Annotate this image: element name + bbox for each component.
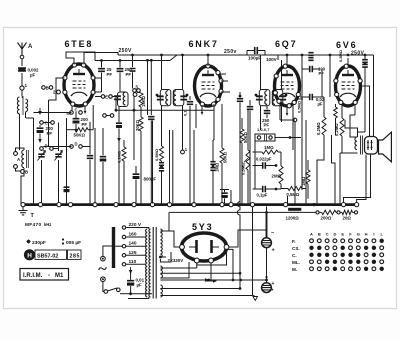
capacitor 250PF bbox=[264, 111, 270, 114]
wire bbox=[230, 190, 232, 203]
mains plug contact bbox=[101, 256, 106, 261]
wire bbox=[287, 196, 289, 204]
svg-text:0,5MΩ: 0,5MΩ bbox=[287, 192, 300, 197]
svg-text:+: + bbox=[272, 281, 275, 287]
svg-text:Η: Η bbox=[27, 252, 32, 259]
bus junction bbox=[167, 203, 171, 207]
bus junction bbox=[114, 203, 118, 207]
capacitor pair top bbox=[308, 53, 313, 56]
logo box SB57-02 bbox=[35, 250, 67, 259]
capacitor bbox=[189, 96, 191, 100]
capacitor 800uF bbox=[133, 174, 140, 177]
svg-text:B: B bbox=[46, 86, 49, 91]
svg-text:−: − bbox=[271, 231, 274, 237]
wire bbox=[21, 73, 23, 86]
bus junction bbox=[341, 203, 345, 207]
svg-text:100V: 100V bbox=[266, 57, 278, 62]
switch contact bbox=[14, 165, 18, 169]
svg-text:20Ω: 20Ω bbox=[343, 215, 352, 220]
wire bbox=[26, 117, 34, 119]
svg-text:µF: µF bbox=[318, 102, 323, 107]
wire bbox=[160, 288, 240, 290]
capacitor black bbox=[220, 189, 229, 191]
avc arrow bbox=[118, 135, 120, 140]
mains plug contact bbox=[101, 277, 106, 282]
wire bbox=[357, 155, 366, 203]
wire bbox=[254, 141, 256, 189]
center tap bbox=[159, 256, 162, 259]
junction bbox=[100, 59, 103, 62]
svg-text:-: - bbox=[48, 273, 50, 279]
antenna A bbox=[18, 43, 27, 58]
wire bbox=[169, 130, 171, 204]
svg-text:PF: PF bbox=[319, 71, 325, 76]
power transformer primary bbox=[146, 229, 148, 297]
wire bbox=[362, 86, 369, 137]
svg-text:PF: PF bbox=[107, 72, 113, 77]
svg-text:50KΩ: 50KΩ bbox=[222, 151, 227, 163]
svg-text:E: E bbox=[105, 95, 108, 100]
capacitor 0.002uF bbox=[18, 68, 26, 71]
svg-text:1MΩ: 1MΩ bbox=[264, 145, 274, 150]
wire bbox=[67, 106, 73, 114]
wire bbox=[252, 207, 254, 296]
svg-text:PF: PF bbox=[126, 72, 132, 77]
tap 220 V bbox=[122, 226, 125, 229]
resistor 20 Ohm bbox=[342, 210, 353, 214]
wire bbox=[227, 249, 234, 280]
logo box 285 bbox=[68, 250, 82, 259]
resistor bbox=[122, 147, 126, 161]
chassis arrow bbox=[252, 295, 255, 297]
wire bbox=[152, 121, 154, 204]
svg-text:C.: C. bbox=[292, 253, 297, 258]
wire bbox=[146, 228, 149, 230]
avc arrow bbox=[39, 108, 41, 113]
svg-text:0,1MΩ: 0,1MΩ bbox=[117, 150, 122, 163]
svg-text:220 V: 220 V bbox=[129, 222, 142, 228]
IF transformer T2 secondary bbox=[272, 90, 283, 106]
svg-text:I: I bbox=[373, 232, 374, 237]
wire bbox=[182, 106, 184, 128]
oscillator coil unit bbox=[118, 92, 129, 107]
pin lead bbox=[296, 98, 303, 100]
tuning gang capacitor C1 bbox=[38, 154, 44, 157]
wire bbox=[286, 55, 288, 66]
junction bbox=[131, 54, 134, 57]
wire bbox=[358, 132, 366, 137]
volume potentiometer 0.5MOhm bbox=[246, 150, 250, 170]
svg-text:0,5MΩ: 0,5MΩ bbox=[297, 100, 302, 113]
wire bbox=[49, 78, 65, 100]
wire bbox=[160, 262, 189, 278]
capacitor 0.1uF bbox=[263, 186, 266, 192]
svg-text:D: D bbox=[75, 142, 78, 147]
tuning gang capacitor C2 bbox=[55, 154, 61, 157]
wire bbox=[48, 100, 50, 146]
resistor 0.2MOhm b bbox=[340, 118, 344, 136]
wire bbox=[160, 231, 179, 247]
node 1 bbox=[20, 86, 24, 90]
svg-text:0,2MΩ: 0,2MΩ bbox=[316, 122, 321, 135]
svg-text:005 µF: 005 µF bbox=[66, 240, 81, 246]
wire bbox=[301, 55, 303, 69]
svg-text:A: A bbox=[28, 44, 33, 50]
svg-text:0,5MΩ: 0,5MΩ bbox=[241, 162, 246, 175]
svg-text:B: B bbox=[318, 232, 321, 237]
power switch bbox=[104, 290, 108, 294]
capacitor bbox=[100, 157, 106, 160]
pin stub bbox=[201, 105, 203, 112]
wire bbox=[277, 55, 279, 60]
svg-text:0,5MΩ: 0,5MΩ bbox=[338, 49, 343, 62]
ground symbol bbox=[19, 211, 28, 215]
svg-text:1200Ω: 1200Ω bbox=[286, 215, 300, 220]
resistor 0.5MOhm bbox=[288, 187, 302, 191]
capacitor 100pF bbox=[310, 66, 313, 72]
wire bbox=[279, 104, 281, 120]
logo badge bbox=[24, 249, 35, 260]
svg-text:160: 160 bbox=[129, 232, 137, 238]
svg-text:2: 2 bbox=[53, 90, 56, 95]
svg-text:0,1µF: 0,1µF bbox=[257, 193, 268, 198]
capacitor 25pF bbox=[101, 61, 103, 68]
capacitor 0.022uF bbox=[263, 162, 266, 168]
power transformer core bbox=[152, 227, 154, 299]
arrow on wire bbox=[205, 278, 210, 282]
tap 160 bbox=[122, 235, 125, 238]
wire bbox=[213, 104, 215, 140]
pin stub bbox=[84, 106, 86, 111]
wire bbox=[150, 60, 152, 115]
svg-text:6Q7: 6Q7 bbox=[275, 39, 297, 49]
capacitor 250pF bbox=[119, 61, 121, 68]
model box I.R.I.M. - M1 bbox=[20, 269, 69, 281]
junction bbox=[255, 94, 258, 97]
bus junction bbox=[21, 203, 25, 207]
wire bbox=[344, 155, 371, 203]
wire bbox=[21, 171, 24, 204]
svg-text:SB57-02: SB57-02 bbox=[37, 254, 58, 260]
wire bbox=[66, 118, 68, 204]
svg-text:PF: PF bbox=[82, 122, 88, 127]
wire bbox=[196, 263, 198, 268]
wire bbox=[350, 115, 358, 137]
wire bbox=[133, 96, 135, 160]
svg-text:110: 110 bbox=[129, 259, 137, 265]
wire bbox=[41, 149, 43, 152]
svg-text:G: G bbox=[357, 232, 360, 237]
node B link bbox=[42, 86, 46, 90]
svg-text:1: 1 bbox=[25, 83, 28, 88]
wire bbox=[260, 106, 262, 130]
ground arrow bbox=[39, 136, 41, 141]
ground bus bbox=[23, 203, 358, 206]
resistor 20kOhm bbox=[140, 107, 142, 117]
wire bbox=[128, 297, 149, 299]
svg-text:800µF: 800µF bbox=[144, 177, 157, 182]
switch contact bbox=[14, 152, 18, 156]
resistor 0.5MOhm bbox=[160, 146, 164, 161]
bus junction bbox=[150, 203, 154, 207]
bus junction bbox=[229, 203, 233, 207]
svg-text:0,2MΩ: 0,2MΩ bbox=[334, 123, 339, 136]
wire bbox=[172, 130, 174, 203]
IF transformer T2 primary bbox=[259, 90, 270, 106]
wire bbox=[25, 112, 27, 118]
resistor bbox=[306, 170, 310, 184]
capacitor black bbox=[118, 107, 120, 123]
tap 140 bbox=[122, 245, 125, 248]
loudspeaker LS bbox=[379, 132, 392, 162]
wire bbox=[286, 58, 288, 66]
wire bbox=[161, 55, 163, 90]
bus junction bbox=[132, 203, 136, 207]
svg-text:1,0-0,7: 1,0-0,7 bbox=[257, 127, 270, 132]
bus junction bbox=[220, 203, 224, 207]
wire bbox=[115, 97, 117, 111]
ground arrow right bbox=[205, 280, 213, 282]
mains bar bbox=[112, 227, 115, 268]
svg-text:H: H bbox=[365, 232, 368, 237]
wire bbox=[321, 69, 323, 97]
wire bbox=[160, 272, 238, 274]
svg-text:250V: 250V bbox=[119, 48, 133, 54]
node 5 link bbox=[133, 89, 137, 93]
legend star 230pF bbox=[27, 240, 31, 244]
node 2 bbox=[57, 90, 61, 94]
wire bbox=[53, 148, 59, 150]
legend dots 005uF bbox=[62, 238, 64, 240]
wire bbox=[281, 106, 283, 122]
wire bbox=[281, 60, 283, 90]
pin lead bbox=[219, 73, 226, 75]
wire bbox=[294, 120, 296, 204]
svg-text:ML.: ML. bbox=[292, 260, 300, 265]
wire bbox=[43, 122, 50, 124]
node B bbox=[21, 170, 25, 174]
wire bbox=[275, 137, 301, 139]
wire bbox=[33, 118, 35, 204]
capacitor 0.02uF bbox=[310, 94, 313, 100]
wire bbox=[84, 53, 118, 65]
wire bbox=[266, 280, 268, 283]
bus junction bbox=[57, 203, 61, 207]
resistor 50kOhm vertical bbox=[220, 148, 224, 163]
antenna coil L1 bbox=[17, 97, 19, 114]
B+ line bbox=[169, 211, 322, 213]
wire bbox=[207, 55, 209, 66]
capacitor bbox=[148, 117, 154, 120]
capacitor pair bbox=[159, 163, 164, 166]
pin lead bbox=[94, 77, 102, 79]
wire bbox=[160, 295, 252, 297]
svg-text:2MΩ: 2MΩ bbox=[272, 174, 282, 179]
wire bbox=[210, 263, 212, 280]
wire bbox=[345, 120, 358, 137]
svg-text:125: 125 bbox=[129, 250, 137, 256]
supply rail second bbox=[95, 60, 170, 62]
wire bbox=[266, 212, 268, 237]
svg-text:CS.: CS. bbox=[292, 246, 300, 251]
capacitor bbox=[132, 55, 134, 67]
svg-text:20KΩ: 20KΩ bbox=[135, 119, 140, 131]
svg-text:E: E bbox=[341, 232, 344, 237]
wire bbox=[92, 105, 94, 130]
bus junction bbox=[192, 203, 196, 207]
node C link bbox=[40, 121, 44, 125]
wire bbox=[115, 245, 122, 247]
wire bbox=[301, 69, 303, 190]
svg-text:A: A bbox=[310, 232, 313, 237]
svg-text:6TE8: 6TE8 bbox=[65, 39, 94, 49]
bus junction bbox=[250, 203, 254, 207]
capacitor 0.01uF bbox=[130, 267, 132, 272]
tap 110 bbox=[122, 263, 125, 266]
wire bbox=[292, 104, 294, 150]
bus junction bbox=[68, 203, 72, 207]
electrolytic capacitor 2 bbox=[262, 283, 272, 293]
svg-text:D: D bbox=[333, 232, 336, 237]
power transformer filament winding 1 bbox=[160, 266, 162, 278]
wire bbox=[34, 112, 72, 114]
wire bbox=[160, 279, 266, 281]
trimmer capacitor 200pF bbox=[39, 125, 41, 127]
triode-hexode 6TE8 V1 bbox=[64, 64, 94, 106]
svg-text:M.: M. bbox=[292, 267, 297, 272]
wire bbox=[168, 212, 170, 231]
resistor 50kOhm vertical 2 bbox=[240, 129, 244, 143]
capacitor pair right bbox=[362, 60, 368, 63]
svg-text:*: * bbox=[272, 289, 274, 295]
capacitor bbox=[247, 107, 253, 110]
resistor 50kOhm bbox=[76, 128, 88, 132]
wire bbox=[266, 207, 268, 233]
wire bbox=[340, 152, 358, 154]
phono jack bbox=[255, 134, 275, 141]
svg-text:15KΩ: 15KΩ bbox=[141, 95, 146, 107]
wire bbox=[329, 55, 331, 97]
svg-text:6V6: 6V6 bbox=[336, 40, 357, 50]
node link bbox=[70, 145, 74, 149]
svg-text:285: 285 bbox=[70, 253, 80, 259]
resistor 1MOhm bbox=[262, 150, 278, 154]
wire bbox=[229, 230, 262, 247]
beam tetrode 6V6 V4 bbox=[336, 66, 361, 106]
wire bbox=[103, 282, 105, 292]
capacitor bbox=[237, 99, 243, 102]
wire bbox=[21, 59, 23, 66]
resistor 0.2MOhm bbox=[322, 117, 326, 135]
electrolytic capacitor C+ bbox=[262, 238, 272, 248]
wire bbox=[128, 293, 152, 295]
wire bbox=[193, 130, 195, 204]
svg-text:MF470: MF470 bbox=[25, 222, 41, 228]
duodiode-triode 6Q7 V3 bbox=[275, 66, 300, 106]
cathode resistor bbox=[334, 107, 338, 118]
wire bbox=[305, 120, 307, 203]
bus junction bbox=[38, 203, 42, 207]
speaker voice coil bbox=[365, 137, 378, 155]
wire bbox=[238, 229, 267, 231]
svg-text:C: C bbox=[75, 108, 78, 113]
resistor 200 Ohm bbox=[322, 210, 336, 214]
node E link bbox=[101, 95, 105, 99]
wire bbox=[354, 104, 356, 115]
svg-text:250V: 250V bbox=[351, 51, 365, 57]
AVC wire bbox=[116, 109, 214, 111]
capacitor pair bbox=[210, 162, 215, 165]
heater wire with hops bbox=[237, 170, 240, 288]
wire bbox=[339, 153, 341, 203]
capacitor 200pF bbox=[73, 119, 80, 122]
svg-text:100µF: 100µF bbox=[248, 56, 261, 61]
svg-text:200Ω: 200Ω bbox=[321, 215, 332, 220]
svg-text:+: + bbox=[272, 248, 275, 254]
oscillator coil L2 bbox=[22, 150, 24, 168]
resistor 2MOhm bbox=[279, 166, 283, 184]
node 5 bbox=[133, 93, 137, 97]
junction bbox=[156, 94, 159, 97]
wire bbox=[43, 146, 71, 148]
svg-text:0,5MΩ: 0,5MΩ bbox=[154, 148, 159, 161]
mains tilde bbox=[98, 266, 107, 272]
svg-text:250v: 250v bbox=[224, 49, 237, 55]
junction bbox=[265, 211, 268, 214]
power transformer filament winding 2 bbox=[160, 285, 162, 297]
wire bbox=[195, 104, 197, 128]
capacitor bbox=[87, 156, 93, 159]
wire bbox=[16, 168, 25, 171]
svg-text:140: 140 bbox=[129, 241, 137, 247]
svg-text:50KΩ: 50KΩ bbox=[74, 133, 86, 138]
wire bbox=[197, 249, 227, 265]
svg-text:5Y3: 5Y3 bbox=[192, 222, 213, 232]
node D link bbox=[40, 147, 44, 151]
wire bbox=[182, 55, 184, 90]
wire bbox=[161, 106, 163, 146]
resistor 1200 Ohm bbox=[288, 208, 301, 211]
wire bbox=[266, 248, 268, 278]
tap 125 bbox=[122, 254, 125, 257]
svg-text:M1: M1 bbox=[55, 273, 64, 279]
capacitor 100uF bbox=[255, 47, 258, 54]
wire bbox=[16, 148, 25, 152]
wire bbox=[19, 114, 21, 150]
supply rail 250V bbox=[118, 54, 374, 56]
svg-text:µF: µF bbox=[137, 283, 143, 288]
wire bbox=[160, 267, 196, 269]
link circle bbox=[316, 211, 319, 214]
wire bbox=[373, 55, 375, 137]
pentode 6NK7 V2 bbox=[195, 66, 222, 106]
svg-text:6NK7: 6NK7 bbox=[189, 39, 219, 49]
wire bbox=[103, 246, 114, 256]
svg-text:0,022µF: 0,022µF bbox=[256, 157, 272, 162]
svg-text:230pF: 230pF bbox=[32, 240, 46, 246]
bus junction bbox=[355, 203, 359, 207]
resistor 15kOhm bbox=[139, 93, 143, 107]
wire bbox=[21, 90, 23, 96]
node link bbox=[70, 111, 74, 115]
wire bbox=[67, 129, 76, 131]
wire bbox=[147, 60, 149, 115]
bus junction bbox=[93, 203, 97, 207]
node 1 bbox=[182, 128, 184, 150]
svg-text:B: B bbox=[25, 170, 28, 175]
svg-text:C: C bbox=[326, 232, 329, 237]
output transformer primary bbox=[355, 137, 357, 150]
